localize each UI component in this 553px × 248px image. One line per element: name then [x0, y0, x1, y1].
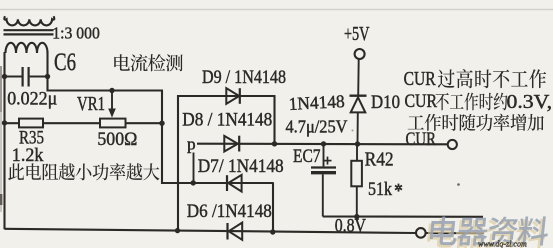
svg-text:D9 / 1N4148: D9 / 1N4148	[202, 67, 286, 88]
scan speck near R42	[457, 183, 460, 186]
annotation line2: not working approx	[435, 93, 507, 111]
diode D9 (pointing right)	[226, 88, 239, 104]
scan artifact: faint top edge line	[0, 9, 553, 11]
resistor R42 body	[351, 161, 362, 187]
wire: right vertical x=162 down to D7 row	[161, 91, 163, 185]
wire: +5V to D10 cathode	[357, 59, 360, 95]
node: C6 right junction	[45, 74, 50, 79]
node: C6 left junction	[2, 74, 7, 79]
node: p drop joins D7 row	[191, 180, 196, 185]
svg-text:+5V: +5V	[344, 24, 370, 45]
asterisk marker for 51k	[398, 188, 400, 192]
wire: D9 row	[178, 95, 276, 97]
wire: D7 drop rail to bottom bus	[272, 183, 274, 232]
wire: right rail (D9 row down to main bus)	[273, 96, 275, 144]
capacitor EC7 top plate	[311, 166, 336, 168]
svg-text:1N4148: 1N4148	[288, 91, 345, 114]
svg-text:VR1: VR1	[77, 93, 105, 115]
wire: R42 top lead	[356, 144, 358, 161]
diode D10 triangle (apex up)	[351, 97, 366, 112]
svg-text:51k: 51k	[368, 179, 392, 200]
svg-text:500Ω: 500Ω	[97, 129, 137, 150]
capacitor C6: left wire	[5, 75, 22, 77]
wire: top horizontal (wiper bus)	[47, 89, 164, 91]
node: R42 bottom junction	[354, 214, 359, 219]
wire: left vertical rail	[3, 52, 5, 229]
svg-text:4.7μ/25V: 4.7μ/25V	[286, 117, 348, 137]
svg-text:D6 /1N4148: D6 /1N4148	[187, 201, 272, 222]
svg-text:0.8V: 0.8V	[335, 217, 367, 237]
terminal: bottom-left open circle	[416, 228, 426, 238]
wire: lower bus (EC7/R42 bottom)	[323, 215, 483, 217]
transformer T1 core lines	[4, 29, 54, 31]
svg-text:CUR: CUR	[405, 92, 438, 112]
node: bottom bus x ladder left rail	[175, 228, 180, 233]
node: right rail joins main bus	[272, 141, 277, 146]
svg-text:CUR: CUR	[406, 129, 437, 150]
wire: p drop to D7 row	[193, 153, 195, 183]
transformer T1 primary winding (top, arcs bulge down)	[4, 16, 54, 25]
diode D7 (pointing left)	[226, 175, 228, 191]
potentiometer VR1 body (500 ohm)	[100, 119, 126, 128]
svg-text:0.3V,: 0.3V,	[507, 92, 553, 113]
svg-text:D8 / 1N4148: D8 / 1N4148	[182, 110, 272, 131]
wire: EC7 bottom lead	[322, 174, 324, 216]
node: EC7 tap on main bus	[321, 141, 326, 146]
node: resistor row right	[159, 121, 164, 126]
svg-text:www.dq-zl.com: www.dq-zl.com	[478, 240, 527, 248]
wire: ladder left rail	[177, 95, 179, 231]
svg-text:CUR: CUR	[404, 68, 437, 90]
terminal: CUR open circle	[448, 140, 457, 149]
scan artifact: dark left edge strip	[0, 66, 2, 112]
svg-text:D10: D10	[371, 92, 400, 113]
watermark 电器资料 cream shadow	[426, 219, 547, 248]
node: resistor row left	[2, 120, 7, 125]
annotation line1: too high -> stops working	[438, 69, 546, 88]
node: bottom bus x D7 drop rail	[270, 229, 275, 234]
svg-text:1.2k: 1.2k	[12, 145, 44, 166]
diode D10 cathode bar	[350, 94, 367, 96]
svg-text:R42: R42	[365, 150, 394, 171]
node: VR1 wiper tap	[109, 88, 114, 93]
wire: from bottom terminal rightward under watermark	[426, 232, 484, 234]
terminal: +5V open circle	[355, 49, 365, 59]
capacitor EC7 bottom plate	[311, 171, 336, 174]
resistor R35 body	[19, 119, 43, 128]
watermark 电器资料 blue layer	[429, 216, 550, 245]
svg-text:C6: C6	[54, 49, 76, 76]
potentiometer VR1 wiper arrow	[111, 91, 113, 111]
svg-text:D7/ 1N4148: D7/ 1N4148	[198, 156, 284, 177]
wire: transformer right lead down	[46, 52, 48, 92]
wire: resistor row	[5, 122, 163, 124]
annotation line3: rises with power while working	[408, 114, 544, 131]
capacitor EC7 polarity plus sign	[324, 160, 332, 162]
annotation: current detection	[114, 54, 183, 71]
transformer T1 secondary winding (loops bulge up)	[6, 43, 48, 53]
scan speck on bus	[352, 130, 354, 132]
diode D8 (pointing right)	[224, 136, 238, 152]
svg-text:p: p	[187, 135, 196, 154]
diode D6 (pointing left) on bottom bus	[226, 223, 228, 240]
annotation: smaller resistance -> larger power	[8, 163, 159, 180]
capacitor C6: right wire	[30, 75, 48, 77]
wire: D7 row	[162, 182, 274, 184]
svg-text:1:3 000: 1:3 000	[52, 23, 100, 42]
wire: main bus from p to CUR terminal	[197, 143, 448, 146]
capacitor C6: plates	[22, 67, 24, 87]
node: D10/R42 tap on main bus	[355, 141, 360, 146]
svg-text:EC7: EC7	[293, 147, 321, 167]
wire: D10 anode to main bus	[357, 112, 359, 143]
wire: R42 bottom lead	[356, 186, 358, 216]
wire: bottom bus with slight scan slope	[5, 229, 417, 233]
wire: EC7 top lead	[323, 144, 325, 167]
